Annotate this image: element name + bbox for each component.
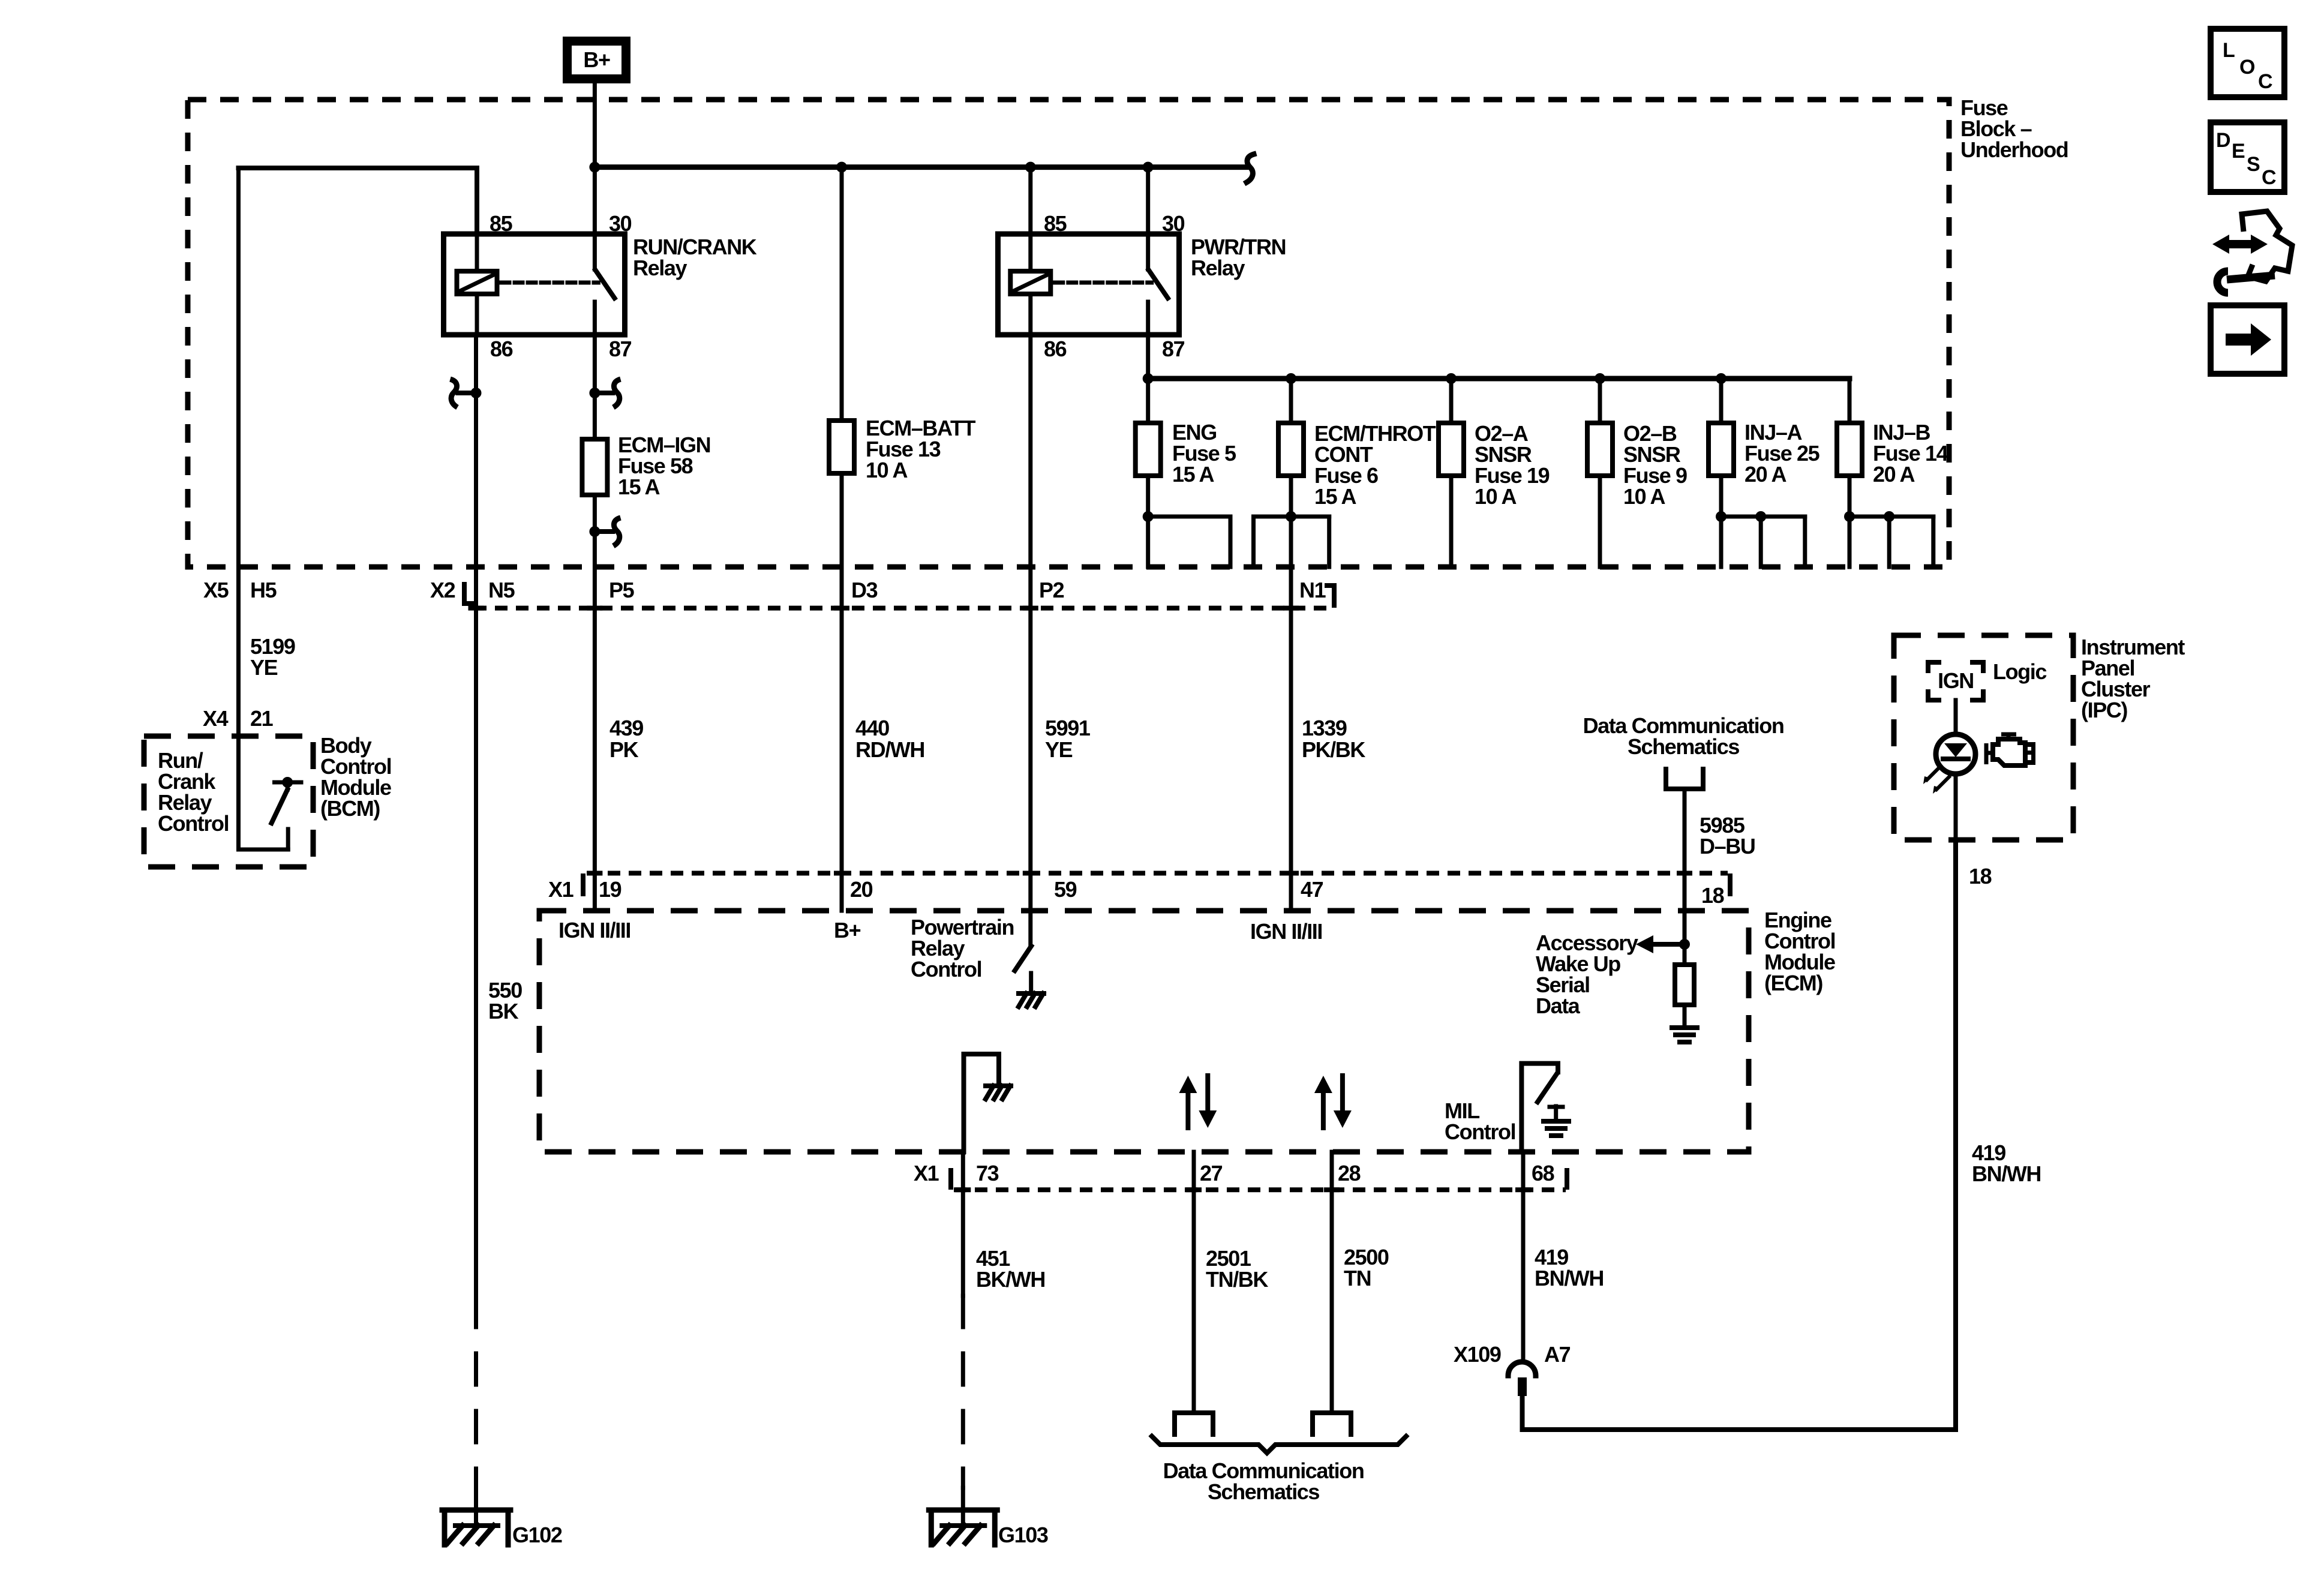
svg-text:TN: TN [1344,1266,1371,1290]
svg-text:47: 47 [1301,877,1323,902]
svg-text:H5: H5 [250,578,277,602]
svg-text:D3: D3 [851,578,878,602]
svg-text:O: O [2239,56,2255,79]
svg-text:15 A: 15 A [1314,484,1357,509]
svg-text:X109: X109 [1454,1342,1501,1367]
svg-text:P5: P5 [609,578,635,602]
svg-text:Control: Control [158,811,229,836]
svg-text:440: 440 [855,716,889,740]
svg-text:Schematics: Schematics [1208,1479,1319,1504]
svg-text:85: 85 [490,211,513,236]
svg-text:21: 21 [250,706,274,731]
svg-text:Control: Control [911,957,981,981]
svg-text:X1: X1 [914,1161,939,1185]
svg-text:N5: N5 [488,578,515,602]
svg-text:BK: BK [488,999,519,1023]
svg-text:BN/WH: BN/WH [1535,1266,1604,1290]
svg-text:73: 73 [976,1161,999,1185]
svg-text:E: E [2232,140,2245,163]
svg-text:B+: B+ [583,47,610,72]
svg-text:68: 68 [1532,1161,1554,1185]
svg-text:28: 28 [1338,1161,1361,1185]
svg-text:RD/WH: RD/WH [855,737,924,762]
svg-text:1339: 1339 [1302,716,1347,740]
svg-text:86: 86 [490,337,513,361]
svg-text:27: 27 [1200,1161,1223,1185]
svg-text:20 A: 20 A [1744,462,1787,487]
svg-text:G102: G102 [512,1523,562,1547]
svg-text:X5: X5 [203,578,229,602]
svg-text:YE: YE [1045,737,1073,762]
svg-text:20 A: 20 A [1873,462,1915,487]
svg-text:Data: Data [1536,993,1581,1018]
svg-text:D: D [2216,129,2230,152]
svg-text:(ECM): (ECM) [1764,971,1822,995]
svg-text:Underhood: Underhood [1960,137,2068,162]
svg-text:18: 18 [1701,883,1724,908]
svg-text:87: 87 [1162,337,1185,361]
svg-text:18: 18 [1969,864,1992,888]
svg-text:10 A: 10 A [866,458,908,482]
svg-text:87: 87 [609,337,632,361]
svg-text:PK/BK: PK/BK [1302,737,1365,762]
svg-text:A7: A7 [1544,1342,1571,1367]
svg-text:X4: X4 [203,706,229,731]
svg-text:TN/BK: TN/BK [1206,1267,1268,1292]
svg-text:PK: PK [609,737,639,762]
svg-text:30: 30 [1162,211,1185,236]
svg-text:N1: N1 [1299,578,1326,602]
svg-text:B+: B+ [834,918,861,942]
svg-text:10 A: 10 A [1623,484,1666,509]
svg-text:X1: X1 [548,877,574,902]
svg-text:Relay: Relay [633,256,687,280]
svg-text:Schematics: Schematics [1628,734,1739,759]
svg-text:BK/WH: BK/WH [976,1267,1045,1292]
svg-text:10 A: 10 A [1475,484,1517,509]
svg-text:IGN II/III: IGN II/III [1250,919,1322,944]
svg-text:X2: X2 [430,578,455,602]
svg-text:(IPC): (IPC) [2081,698,2127,722]
svg-text:86: 86 [1044,337,1067,361]
svg-text:15 A: 15 A [618,475,660,499]
svg-text:L: L [2223,39,2235,62]
svg-text:439: 439 [609,716,643,740]
svg-text:Control: Control [1445,1119,1515,1144]
svg-text:G103: G103 [998,1523,1048,1547]
svg-text:Logic: Logic [1993,659,2046,684]
svg-text:C: C [2258,70,2272,93]
svg-text:59: 59 [1054,877,1077,902]
svg-text:85: 85 [1044,211,1067,236]
svg-text:C: C [2262,166,2276,189]
svg-text:IGN II/III: IGN II/III [559,918,630,942]
svg-text:Relay: Relay [1191,256,1245,280]
svg-text:IGN: IGN [1938,668,1974,693]
svg-text:S: S [2247,153,2260,176]
svg-text:YE: YE [250,655,278,680]
svg-text:19: 19 [599,877,621,902]
svg-text:5991: 5991 [1045,716,1091,740]
svg-text:20: 20 [850,877,873,902]
svg-text:P2: P2 [1039,578,1064,602]
svg-text:(BCM): (BCM) [320,796,380,821]
svg-text:BN/WH: BN/WH [1972,1161,2041,1186]
svg-text:D–BU: D–BU [1700,834,1755,858]
svg-text:15 A: 15 A [1172,462,1215,487]
svg-text:30: 30 [609,211,632,236]
